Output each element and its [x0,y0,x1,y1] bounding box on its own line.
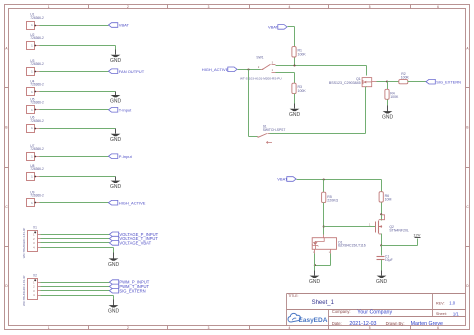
svg-text:X2: X2 [33,273,37,277]
svg-text:STN4NF20L: STN4NF20L [389,228,409,232]
svg-text:10M: 10M [385,198,392,202]
svg-text:SW1: SW1 [256,56,263,60]
svg-text:100K: 100K [390,95,399,99]
svg-text:GND: GND [110,58,122,64]
svg-text:726366-2: 726366-2 [30,119,44,123]
svg-text:WR-TBL/DGRC-3.81-4P: WR-TBL/DGRC-3.81-4P [22,275,26,306]
svg-text:726366-2: 726366-2 [30,194,44,198]
svg-text:1: 1 [48,326,50,330]
svg-text:100K: 100K [298,52,307,56]
svg-text:5: 5 [369,5,371,9]
svg-text:Sheet_1: Sheet_1 [312,300,335,306]
svg-text:Company:: Company: [332,309,351,314]
svg-text:Your Company: Your Company [357,310,392,316]
svg-text:WT-S-103-A101-M200-RS-PU: WT-S-103-A101-M200-RS-PU [240,77,282,81]
svg-text:GND: GND [289,112,301,118]
svg-text:EasyEDA: EasyEDA [299,317,328,324]
svg-text:HIGH_ACTIVE: HIGH_ACTIVE [202,67,229,72]
svg-text:TITLE:: TITLE: [288,294,298,298]
svg-text:GND: GND [110,98,122,104]
svg-text:Drawn By:: Drawn By: [386,321,405,326]
svg-text:VOLTAGE_VBAT: VOLTAGE_VBAT [119,241,151,246]
svg-text:BZX84C15/LT116: BZX84C15/LT116 [338,244,366,248]
svg-text:WR-TBL/DGRC-3.81-4P: WR-TBL/DGRC-3.81-4P [22,228,26,259]
svg-text:1/1: 1/1 [453,311,459,316]
svg-text:SIG_EXTERN: SIG_EXTERN [436,79,461,84]
svg-text:GND: GND [108,309,120,315]
svg-text:2: 2 [127,5,129,9]
svg-text:Marten Greve: Marten Greve [411,321,443,327]
svg-text:4: 4 [289,326,291,330]
svg-text:12V: 12V [413,233,420,238]
svg-text:1: 1 [48,5,50,9]
svg-text:1.0: 1.0 [449,301,455,306]
svg-text:726366-2: 726366-2 [30,83,44,87]
svg-text:REV:: REV: [436,301,445,305]
svg-text:3: 3 [208,5,210,9]
svg-text:GND: GND [382,115,394,121]
svg-text:726366-2: 726366-2 [30,36,44,40]
svg-text:VBAT: VBAT [268,25,279,30]
svg-text:GND: GND [110,184,122,190]
svg-text:HIGH_ACTIVE: HIGH_ACTIVE [119,200,146,205]
svg-text:Sheet:: Sheet: [436,312,447,316]
svg-text:100K: 100K [401,75,410,79]
svg-text:2: 2 [127,326,129,330]
svg-text:VBAT: VBAT [119,23,130,28]
svg-text:3: 3 [208,326,210,330]
svg-text:P-Input: P-Input [119,154,133,159]
svg-text:B: B [5,126,7,130]
svg-text:726366-2: 726366-2 [30,167,44,171]
svg-text:B: B [466,126,468,130]
svg-text:4: 4 [289,5,291,9]
svg-text:GND: GND [309,279,321,285]
svg-text:726366-2: 726366-2 [30,147,44,151]
svg-text:SIG_EXTERN: SIG_EXTERN [119,288,145,293]
svg-text:726366-2: 726366-2 [30,101,44,105]
svg-text:BSS123_C2903845: BSS123_C2903845 [329,81,361,85]
svg-text:GND: GND [110,137,122,143]
svg-text:726366-2: 726366-2 [30,62,44,66]
svg-text:T-Input: T-Input [119,107,132,112]
svg-text:FAN OUTPUT: FAN OUTPUT [119,69,145,74]
svg-text:220KΩ: 220KΩ [327,199,338,203]
svg-text:10µF: 10µF [385,258,393,262]
svg-text:SWITCH-SPST: SWITCH-SPST [263,128,286,132]
svg-text:2021-12-03: 2021-12-03 [349,321,376,327]
svg-text:726366-2: 726366-2 [30,16,44,20]
svg-text:VBAT: VBAT [277,177,288,182]
svg-text:6: 6 [437,5,439,9]
svg-text:X1: X1 [33,226,37,230]
svg-text:GND: GND [108,262,120,268]
svg-text:Date:: Date: [332,321,342,326]
svg-text:GND: GND [376,279,388,285]
svg-text:100K: 100K [298,89,307,93]
